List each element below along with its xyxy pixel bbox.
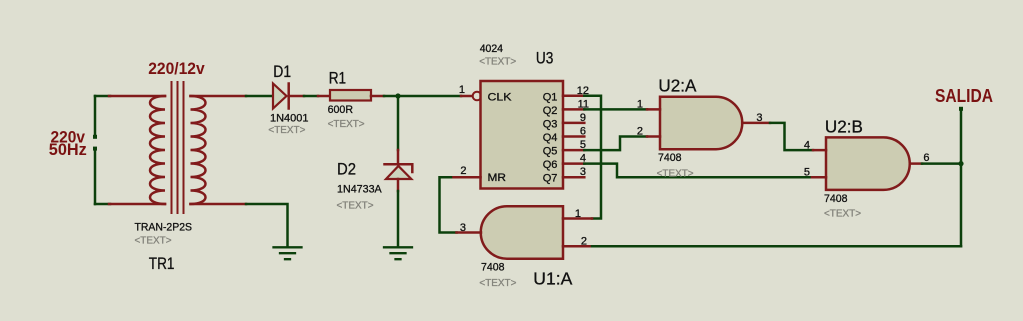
wire U2:A out to U2:B in4 [770,123,813,150]
svg-text:D1: D1 [273,62,291,81]
pin D2 cathode [397,150,400,164]
svg-text:<TEXT>: <TEXT> [328,118,365,130]
svg-text:D2: D2 [337,160,356,179]
ground (D2) [384,247,412,259]
svg-text:MR: MR [488,172,507,184]
svg-text:Q2: Q2 [543,105,558,117]
svg-text:2: 2 [581,235,587,247]
svg-text:6: 6 [923,152,929,164]
wire U2:B out to SALIDA node [922,162,961,165]
svg-text:7408: 7408 [824,193,848,205]
svg-text:U2:A: U2:A [658,75,696,95]
wire junction to D2 [397,96,400,150]
svg-text:3: 3 [460,222,466,234]
clock bubble U3 [473,92,482,101]
pin R1 right [371,95,384,98]
svg-text:<TEXT>: <TEXT> [479,56,516,68]
transformer TR1 core [172,82,184,213]
node junction SALIDA [958,161,963,166]
svg-text:1: 1 [575,208,581,220]
svg-text:6: 6 [580,126,586,138]
svg-text:3: 3 [580,166,586,178]
pins U1:A in [563,219,592,247]
transformer TR1 secondary coil [191,96,206,204]
diode D1 [273,84,287,109]
transformer TR1 primary pins [109,96,165,204]
wire primary bottom [95,203,110,206]
pin U3 CLK [461,95,473,98]
svg-text:600R: 600R [328,104,353,116]
svg-text:SALIDA: SALIDA [935,86,993,106]
svg-text:<TEXT>: <TEXT> [479,277,516,289]
svg-text:2: 2 [460,165,466,177]
pins U2:B in [812,150,826,177]
pins U3 Q1-Q7 [563,96,584,177]
wire R1 to CLK [384,95,461,98]
wire D2 to ground [397,191,400,247]
pin R1 left [318,95,330,98]
node terminal P1 [93,135,97,139]
svg-text:1N4001: 1N4001 [270,113,309,125]
and-gate U2:B [826,137,910,190]
resistor R1 [330,90,371,101]
pin U3 MR [451,176,481,179]
wire Q1 to U1:A in1 [584,96,601,219]
svg-text:Q4: Q4 [543,132,558,144]
svg-text:5: 5 [804,166,810,178]
svg-text:Q3: Q3 [543,118,558,130]
svg-text:<TEXT>: <TEXT> [337,200,374,212]
svg-text:<TEXT>: <TEXT> [824,208,861,220]
wire MR from U1:A [440,177,457,232]
pin D1 cathode [289,95,304,98]
svg-text:CLK: CLK [488,92,513,104]
svg-text:220/12v: 220/12v [148,60,205,78]
node junction R1/D2 [395,93,400,98]
zener diode D2 [385,164,413,172]
ground (secondary) [274,247,302,259]
svg-text:7408: 7408 [658,152,682,164]
pins U2:A in [647,109,660,136]
svg-text:TR1: TR1 [149,254,175,273]
wire Q5 to U2:A in2 [584,137,647,151]
and-gate U2:A [660,97,742,150]
svg-text:1N4733A: 1N4733A [337,184,382,196]
wire Q6 to U2:B in5 [584,164,812,178]
svg-text:Q1: Q1 [543,91,558,103]
svg-text:U3: U3 [536,48,554,67]
svg-text:Q5: Q5 [543,146,558,158]
svg-text:Q7: Q7 [543,173,558,185]
svg-text:4: 4 [804,139,810,151]
wire secondary bottom to ground [246,204,288,247]
wire left vertical lower [94,150,97,204]
svg-text:<TEXT>: <TEXT> [657,167,694,179]
svg-text:1: 1 [459,84,465,96]
pin U2:B out [910,162,922,165]
wire left vertical primary side [94,96,97,135]
wire primary top [95,95,110,98]
svg-text:U1:A: U1:A [533,269,572,289]
wire SALIDA vertical [960,110,963,246]
transformer TR1 secondary pins [191,96,247,204]
svg-text:TRAN-2P2S: TRAN-2P2S [135,222,193,234]
IC U3 4024 body [481,81,564,189]
svg-text:9: 9 [580,112,586,124]
svg-text:1: 1 [637,99,643,111]
wire D1 to R1 [304,95,318,98]
node terminal SALIDA [959,107,963,111]
svg-text:<TEXT>: <TEXT> [268,124,305,136]
svg-text:Q6: Q6 [543,159,558,171]
svg-text:3: 3 [756,112,762,124]
svg-text:2: 2 [637,125,643,137]
svg-text:7408: 7408 [481,262,505,274]
and-gate U1:A (mirrored) [481,206,563,259]
svg-text:<TEXT>: <TEXT> [135,235,172,247]
svg-text:R1: R1 [329,68,346,87]
wire secondary top to D1 [246,95,273,98]
node terminal P2 [93,147,97,151]
pin U1:A out [457,231,482,234]
svg-text:50Hz: 50Hz [49,141,87,159]
pin D2 anode [397,179,400,191]
wire return to U1:A in2 [592,245,961,248]
wire Q2 to U2:A in1 [584,108,647,111]
svg-text:4024: 4024 [480,43,503,55]
svg-text:U2:B: U2:B [825,116,863,136]
transformer TR1 primary coil [150,96,165,204]
pin U2:A out [742,122,770,125]
